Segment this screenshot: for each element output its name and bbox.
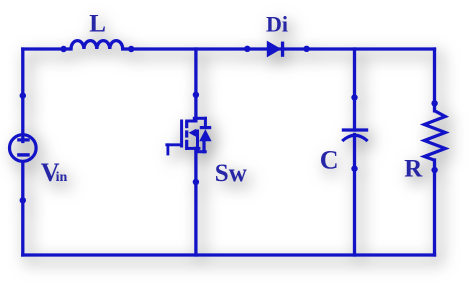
transistor Sw channel segment top [185, 121, 188, 128]
svg-text:R: R [404, 156, 423, 183]
wire left vertical lower [21, 162, 24, 255]
transistor Sw body arrow [189, 129, 196, 137]
junction dot switch source [193, 179, 199, 185]
capacitor C bottom wire [353, 135, 356, 256]
transistor Sw gate plate [180, 121, 183, 146]
transistor Sw source wire [194, 148, 197, 255]
transistor Sw body-diode cathode bar [200, 126, 211, 129]
junction dot switch drain [193, 92, 199, 98]
junction dot diode left [244, 46, 250, 52]
transistor Sw body-diode anode bar [196, 150, 205, 153]
transistor Sw channel segment middle [185, 130, 188, 137]
junction dot resistor top [431, 100, 437, 106]
capacitor C top wire [353, 49, 356, 130]
transistor Sw body-diode anode vertical [202, 141, 205, 152]
inductor L coil [71, 41, 123, 49]
transistor Sw drain lead left bar [187, 120, 196, 123]
wire bottom rail [23, 253, 435, 256]
svg-text:C: C [320, 145, 339, 174]
resistor R bottom wire [433, 160, 436, 255]
capacitor C top plate [342, 128, 368, 131]
capacitor C curved plate [342, 135, 367, 141]
voltage source V_in circle [9, 135, 36, 162]
transistor Sw body connector [196, 131, 199, 150]
junction dot inductor left [60, 46, 66, 52]
transistor Sw drain wire [194, 49, 197, 120]
svg-text:L: L [89, 10, 106, 37]
diode Di cathode bar [281, 42, 284, 57]
voltage source minus sign [17, 153, 30, 156]
svg-text:Vin: Vin [41, 158, 68, 187]
svg-text:Sw: Sw [215, 160, 247, 187]
transistor Sw gate lead [167, 143, 182, 146]
transistor Sw body-diode triangle [199, 129, 211, 141]
junction dot capacitor bottom [351, 165, 357, 171]
resistor R top wire [433, 49, 436, 111]
junction dot capacitor top [351, 94, 357, 100]
junction dot inductor right [128, 46, 134, 52]
junction dot left wire upper [20, 92, 26, 98]
transistor Sw source bar [187, 147, 199, 150]
transistor Sw body-diode cathode vertical [204, 118, 207, 127]
transistor Sw channel segment bottom [185, 140, 188, 150]
junction dot resistor bottom [431, 167, 437, 173]
junction dot diode right [303, 46, 309, 52]
svg-text:Di: Di [266, 12, 288, 37]
diode Di triangle [267, 41, 282, 58]
wire top rail left segment [23, 47, 71, 50]
voltage source plus sign [17, 138, 30, 141]
junction dot left wire lower [20, 197, 26, 203]
wire top rail right segment [123, 47, 435, 50]
transistor Sw top bar to body diode [194, 117, 205, 120]
wire left vertical upper [21, 49, 24, 142]
transistor Sw gate lead stub down [166, 145, 169, 154]
resistor R zigzag [424, 111, 445, 160]
